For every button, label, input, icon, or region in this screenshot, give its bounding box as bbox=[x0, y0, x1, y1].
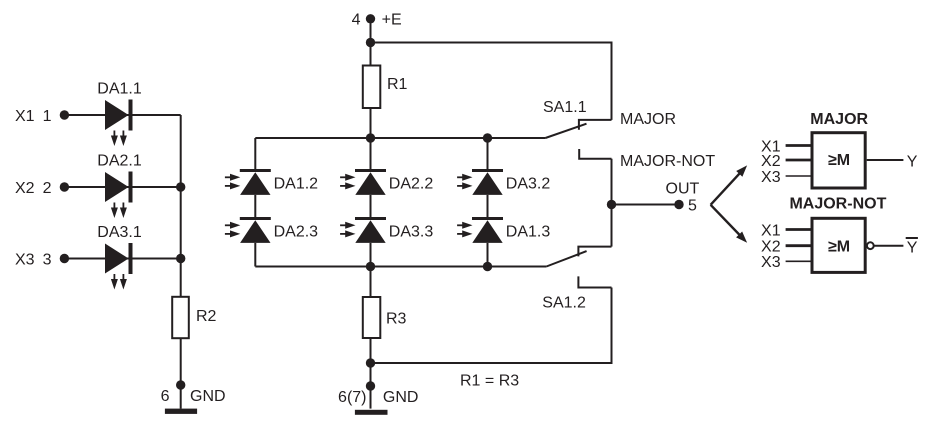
photodiode DA1.3 bbox=[457, 217, 550, 243]
svg-text:SA1.1: SA1.1 bbox=[543, 99, 587, 116]
contact MAJOR bbox=[579, 111, 676, 130]
wire bbox=[180, 115, 182, 409]
node X1 input terminal bbox=[15, 108, 69, 125]
svg-text:R1: R1 bbox=[387, 76, 408, 93]
svg-text:DA2.3: DA2.3 bbox=[274, 224, 319, 241]
junction bbox=[366, 358, 375, 367]
svg-text:R3: R3 bbox=[386, 310, 407, 327]
wire bbox=[370, 338, 372, 409]
svg-text:X2: X2 bbox=[761, 153, 781, 170]
svg-text:≥M: ≥M bbox=[828, 239, 850, 256]
label R1 = R3 bbox=[460, 373, 519, 390]
svg-text:X1: X1 bbox=[15, 108, 35, 125]
svg-text:GND: GND bbox=[383, 389, 419, 406]
node 6 terminal bbox=[161, 380, 226, 405]
svg-text:MAJOR: MAJOR bbox=[810, 111, 868, 128]
arrow to MAJOR gate bbox=[711, 165, 748, 204]
photodiode DA2.3 bbox=[225, 217, 318, 243]
gate U2 input X1 bbox=[761, 222, 812, 239]
svg-text:OUT: OUT bbox=[666, 181, 700, 198]
photodiode DA1.2 bbox=[225, 169, 318, 195]
svg-text:Y: Y bbox=[907, 239, 918, 256]
svg-text:+E: +E bbox=[382, 11, 402, 28]
junction bbox=[483, 133, 492, 142]
wire bbox=[371, 42, 612, 120]
switch SA1.1 blade bbox=[543, 99, 587, 138]
svg-text:≥M: ≥M bbox=[828, 152, 850, 169]
svg-text:DA1.2: DA1.2 bbox=[274, 176, 319, 193]
resistor R3 bbox=[363, 297, 407, 338]
node 4 +E terminal bbox=[352, 11, 402, 28]
svg-text:4: 4 bbox=[352, 11, 361, 28]
wire bbox=[255, 266, 546, 268]
gate U1 input X2 bbox=[761, 153, 812, 170]
node X3 input terminal bbox=[15, 251, 69, 268]
svg-text:MAJOR-NOT: MAJOR-NOT bbox=[789, 196, 886, 213]
gate U1 output Y bbox=[867, 153, 918, 170]
svg-text:DA1.1: DA1.1 bbox=[97, 80, 142, 97]
junction bbox=[366, 133, 375, 142]
wire bbox=[254, 195, 256, 219]
wire bbox=[611, 159, 613, 247]
wire bbox=[370, 138, 372, 171]
op-amp gate MAJOR-NOT (majority gate U2) bbox=[789, 196, 886, 273]
photodiode DA3.2 bbox=[457, 169, 550, 195]
svg-text:R1 = R3: R1 = R3 bbox=[460, 373, 519, 390]
junction bbox=[366, 262, 375, 271]
svg-text:2: 2 bbox=[43, 180, 52, 197]
svg-text:5: 5 bbox=[688, 198, 697, 215]
wire bbox=[370, 108, 372, 138]
junction bbox=[483, 262, 492, 271]
node OUT 5 terminal bbox=[666, 181, 700, 215]
ground bbox=[165, 409, 197, 414]
gate U2 input X3 bbox=[761, 254, 812, 271]
svg-text:X2: X2 bbox=[15, 180, 35, 197]
op-amp gate MAJOR (majority gate U1) bbox=[810, 111, 868, 188]
contact MAJOR-NOT bbox=[579, 149, 715, 170]
svg-text:R2: R2 bbox=[196, 308, 217, 325]
svg-text:DA1.3: DA1.3 bbox=[506, 224, 551, 241]
switch SA1.2 blade bbox=[542, 251, 586, 311]
node X2 input terminal bbox=[15, 180, 69, 197]
node 6(7) terminal bbox=[338, 381, 418, 406]
resistor R1 bbox=[363, 66, 408, 109]
arrow to MAJOR-NOT gate bbox=[711, 205, 748, 243]
wire bbox=[371, 288, 612, 365]
wire bbox=[64, 258, 180, 260]
wire bbox=[487, 195, 489, 219]
svg-text:6: 6 bbox=[161, 388, 170, 405]
gate U1 input X1 bbox=[761, 138, 812, 155]
wire bbox=[370, 267, 372, 298]
svg-text:Y: Y bbox=[907, 153, 918, 170]
wire bbox=[64, 114, 180, 116]
ground bbox=[355, 410, 388, 415]
wire bbox=[64, 186, 180, 188]
svg-text:MAJOR: MAJOR bbox=[620, 111, 676, 128]
gate U2 inverter bubble bbox=[867, 242, 874, 249]
svg-text:X3: X3 bbox=[15, 251, 35, 268]
junction bbox=[176, 254, 185, 263]
svg-text:DA3.3: DA3.3 bbox=[389, 224, 434, 241]
contact to OUT bbox=[578, 247, 611, 257]
gate U1 input X3 bbox=[761, 169, 812, 186]
gate U2 input X2 bbox=[761, 239, 812, 256]
LED DA3.1 bbox=[97, 224, 142, 290]
resistor R2 bbox=[172, 297, 216, 338]
wire bbox=[487, 138, 489, 171]
svg-text:X3: X3 bbox=[761, 254, 781, 271]
junction bbox=[366, 38, 375, 47]
photodiode DA2.2 bbox=[340, 169, 433, 195]
svg-text:X1: X1 bbox=[761, 222, 781, 239]
svg-text:MAJOR-NOT: MAJOR-NOT bbox=[620, 153, 715, 170]
gate U2 output Y-bar bbox=[874, 238, 918, 256]
junction bbox=[607, 200, 616, 209]
wire bbox=[254, 243, 256, 267]
svg-text:6(7): 6(7) bbox=[338, 389, 366, 406]
wire bbox=[370, 19, 372, 66]
svg-text:DA2.1: DA2.1 bbox=[97, 152, 142, 169]
wire bbox=[254, 138, 256, 171]
wire bbox=[612, 204, 680, 206]
LED DA2.1 bbox=[97, 152, 142, 218]
junction bbox=[176, 182, 185, 191]
svg-text:DA3.1: DA3.1 bbox=[97, 224, 142, 241]
wire bbox=[370, 195, 372, 219]
svg-text:1: 1 bbox=[43, 108, 52, 125]
wire bbox=[487, 243, 489, 267]
svg-text:X3: X3 bbox=[761, 169, 781, 186]
svg-text:X2: X2 bbox=[761, 239, 781, 256]
svg-text:GND: GND bbox=[190, 388, 226, 405]
contact to GND rail bbox=[578, 276, 611, 287]
svg-text:3: 3 bbox=[43, 251, 52, 268]
wire bbox=[370, 243, 372, 267]
svg-text:SA1.2: SA1.2 bbox=[542, 294, 586, 311]
svg-text:DA3.2: DA3.2 bbox=[506, 176, 551, 193]
svg-text:DA2.2: DA2.2 bbox=[389, 176, 434, 193]
photodiode DA3.3 bbox=[340, 217, 433, 243]
wire bbox=[255, 137, 545, 139]
LED DA1.1 bbox=[97, 80, 142, 146]
